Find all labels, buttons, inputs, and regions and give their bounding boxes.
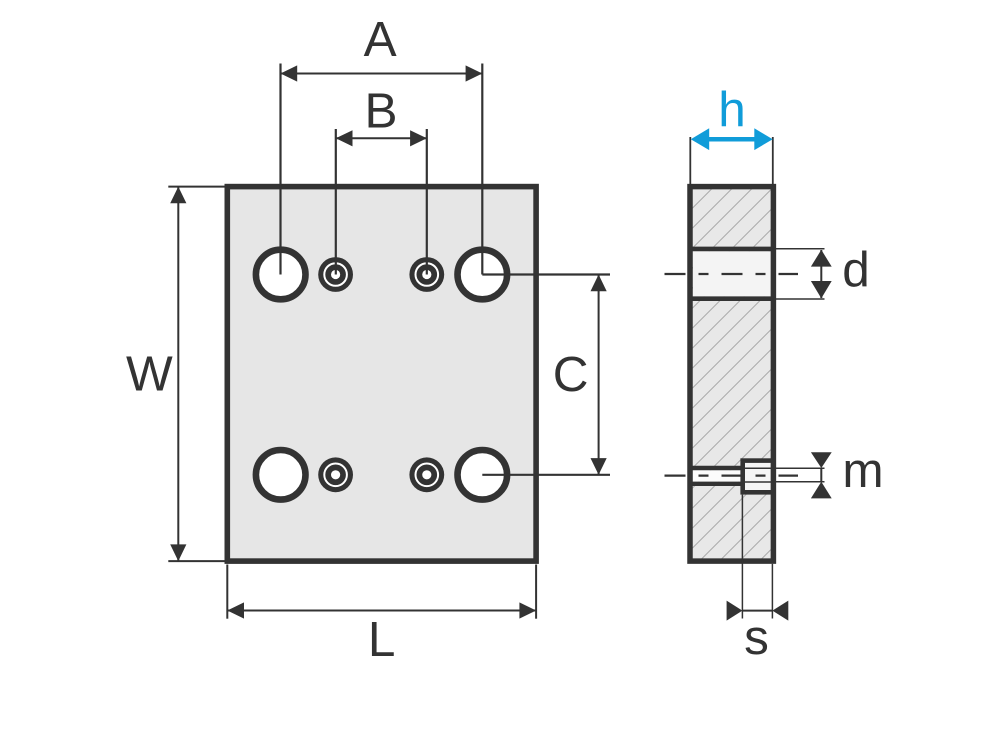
dimension W arrow top — [170, 187, 186, 204]
dimension s arrow right — [772, 601, 788, 621]
dimension W arrow bottom — [170, 544, 186, 561]
dimension h line (blue) — [707, 137, 756, 142]
dimension L arrow right — [519, 602, 536, 618]
dimension B arrow right — [410, 130, 427, 146]
dimension m extension line top — [776, 467, 825, 469]
dimension s line — [742, 610, 772, 612]
dimension m extension line bottom — [776, 481, 825, 483]
dimension L line — [227, 610, 536, 612]
centerline m — [665, 475, 799, 477]
hole top-left small — [318, 257, 353, 292]
hole bottom-left small — [318, 457, 353, 492]
slot m — [693, 470, 741, 481]
side view outline — [690, 187, 773, 561]
dimension B extension line left — [335, 129, 337, 275]
dimension m line — [820, 468, 822, 482]
dimension W line — [177, 187, 179, 561]
dimension B extension line right — [426, 129, 428, 275]
dimension A extension line right — [481, 64, 483, 275]
svg-text:B: B — [364, 84, 397, 139]
dimension s arrow left — [727, 601, 743, 621]
dimension d extension line bottom — [776, 298, 825, 300]
dimension d extension line top — [776, 248, 825, 250]
dimension C arrow top — [591, 275, 607, 292]
hole bottom-left large — [256, 450, 306, 500]
dimension A line — [281, 73, 483, 75]
front view plate — [227, 187, 536, 561]
svg-text:s: s — [744, 610, 769, 665]
dimension m arrow top — [811, 452, 832, 468]
dimension s extension line right — [771, 564, 773, 619]
svg-text:W: W — [126, 346, 173, 401]
hole top-left large — [256, 250, 306, 300]
dimension L extension line left — [226, 565, 228, 619]
dimension h arrow right (blue) — [754, 128, 772, 150]
dimension A arrow right — [466, 65, 483, 81]
dimension d line — [820, 250, 822, 298]
dimension s extension line left — [741, 495, 743, 619]
dimension C extension line top — [482, 273, 610, 275]
dimension W extension line bottom — [168, 560, 228, 562]
dimension C arrow bottom — [591, 458, 607, 475]
dimension h arrow left (blue) — [691, 128, 709, 150]
hole d band top line — [688, 247, 776, 252]
dimension h extension line right — [772, 137, 774, 185]
dimension A extension line left — [279, 64, 281, 275]
dimension h extension line left — [689, 137, 691, 185]
dimension m arrow bottom — [811, 482, 832, 499]
svg-text:m: m — [842, 443, 883, 498]
hole top-right large — [458, 250, 508, 300]
hole bottom-right large — [458, 450, 508, 500]
dimension C line — [598, 275, 600, 475]
dimension d arrow top — [811, 250, 832, 267]
slot m top line — [688, 466, 741, 470]
dimension B line — [336, 137, 427, 139]
svg-text:A: A — [364, 12, 397, 67]
dimension L extension line right — [535, 565, 537, 619]
side view body with hatching — [690, 187, 773, 561]
slot m bottom line — [688, 482, 741, 486]
svg-text:d: d — [842, 242, 870, 297]
svg-text:L: L — [368, 612, 396, 667]
dimension d arrow bottom — [811, 281, 832, 298]
hole d band bottom line — [688, 296, 776, 301]
dimension C extension line bottom — [482, 474, 610, 476]
hole top-right small — [409, 257, 444, 292]
svg-text:C: C — [553, 347, 589, 402]
dimension B arrow left — [336, 130, 353, 146]
svg-text:h: h — [718, 82, 746, 137]
centerline d — [665, 273, 799, 275]
hole bottom-right small — [409, 457, 444, 492]
counterbore box — [743, 461, 774, 493]
dimension L arrow left — [227, 602, 244, 618]
dimension W extension line top — [168, 186, 228, 188]
hole d band — [693, 251, 771, 296]
dimension A arrow left — [281, 65, 298, 81]
